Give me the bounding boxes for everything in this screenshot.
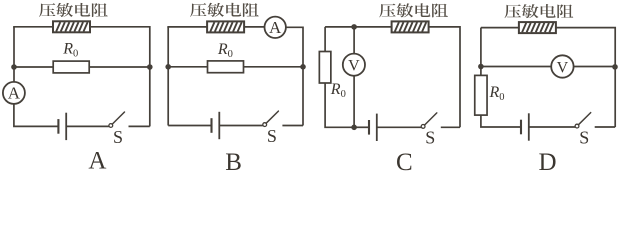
svg-text:V: V: [348, 58, 360, 75]
svg-text:D: D: [538, 149, 556, 171]
switch S (circuit A): [109, 112, 125, 147]
node: C bottom junction: [351, 125, 357, 131]
wire: C voltmeter branch lower lead: [353, 76, 355, 128]
wire: A middle branch left lead: [14, 66, 53, 68]
resistor R0 (circuit A): [53, 61, 89, 73]
svg-text:B: B: [225, 149, 242, 171]
wire: B varistor to ammeter: [244, 26, 265, 28]
wire: B left side: [167, 27, 169, 67]
wire: C node to battery: [354, 126, 369, 128]
label 压敏电阻 (circuit C): [379, 3, 448, 17]
varistor RT (circuit B): [207, 21, 244, 32]
wire: A middle branch right lead: [89, 66, 150, 68]
wire: C top-left segment to varistor: [325, 26, 391, 28]
wire: D middle branch right lead: [574, 66, 616, 68]
wire: D right side below node: [614, 67, 616, 128]
wire: D battery to switch: [529, 126, 575, 128]
wire: C top-right segment + right side: [429, 27, 460, 127]
wire: D top-left segment: [481, 27, 519, 29]
wire: D middle branch left lead: [481, 66, 551, 68]
switch S (circuit D): [575, 113, 591, 148]
svg-text:A: A: [88, 148, 106, 172]
ammeter A1 (circuit B): [265, 17, 286, 38]
node: A left junction: [11, 64, 17, 70]
wire: C left side lower lead + bottom to node: [325, 83, 354, 127]
label 压敏电阻 (circuit B): [190, 3, 259, 17]
wire: A switch to bottom-right corner: [129, 125, 150, 127]
wire: D resistor to bottom corner: [481, 115, 521, 127]
wire: B bottom-left to battery: [168, 125, 211, 127]
wire: D left side top to node: [480, 28, 482, 67]
wire: A top-right segment + right side down to node: [90, 27, 150, 67]
wire: B right side below node: [302, 67, 304, 126]
wire: B ammeter to top-right corner + right side to node: [286, 27, 303, 67]
wire: C battery to switch: [377, 126, 421, 128]
battery (circuit B): [212, 112, 220, 139]
battery (circuit A): [58, 113, 66, 140]
svg-text:V: V: [557, 59, 569, 76]
wire: D switch to bottom-right corner: [595, 126, 616, 128]
varistor RT (circuit D): [519, 22, 556, 33]
node: B right junction: [300, 64, 306, 70]
resistor R0 (circuit D): [475, 75, 487, 115]
node: D right junction: [612, 64, 618, 70]
switch S (circuit C): [421, 113, 437, 148]
wire: B left node to bottom corner: [167, 67, 169, 126]
node: A right junction: [147, 64, 153, 70]
voltmeter V1 (circuit D): [551, 55, 573, 77]
wire: C switch to bottom-right corner: [441, 126, 460, 128]
wire: B switch to bottom-right corner: [282, 125, 303, 127]
varistor RT (circuit C): [392, 21, 429, 32]
wire: A top-left segment: [14, 27, 53, 28]
battery (circuit C): [369, 114, 377, 141]
varistor RT (circuit A): [53, 21, 90, 32]
wire: A ammeter to bottom corner: [14, 104, 59, 127]
wire: A left side top to node: [13, 27, 15, 67]
resistor R0 (circuit B): [208, 61, 244, 73]
svg-text:A: A: [269, 18, 282, 37]
switch S (circuit B): [263, 111, 279, 146]
label 压敏电阻 (circuit A): [39, 3, 108, 17]
svg-text:C: C: [396, 149, 413, 171]
wire: A battery to switch: [66, 125, 109, 127]
node: D left junction: [478, 64, 484, 70]
wire: C voltmeter branch upper lead: [353, 27, 355, 54]
label 压敏电阻 (circuit D): [505, 4, 574, 18]
wire: B middle branch left lead: [168, 66, 207, 68]
wire: A left side node to ammeter: [13, 67, 15, 82]
wire: D left node to resistor: [480, 67, 482, 76]
node: B left junction: [165, 64, 171, 70]
wire: C left side upper lead: [324, 27, 326, 52]
voltmeter V1 (circuit C): [343, 54, 365, 76]
svg-text:A: A: [8, 84, 21, 103]
node: C top junction: [351, 24, 357, 30]
wire: B middle branch right lead: [244, 66, 304, 68]
resistor R0 (circuit C): [319, 52, 331, 84]
battery (circuit D): [521, 113, 529, 140]
wire: B battery to switch: [219, 125, 262, 127]
ammeter A1 (circuit A): [3, 82, 25, 104]
wire: D top-right segment + right side to node: [556, 28, 615, 67]
wire: A right side below node: [149, 67, 151, 126]
wire: B top-left segment: [168, 27, 207, 28]
